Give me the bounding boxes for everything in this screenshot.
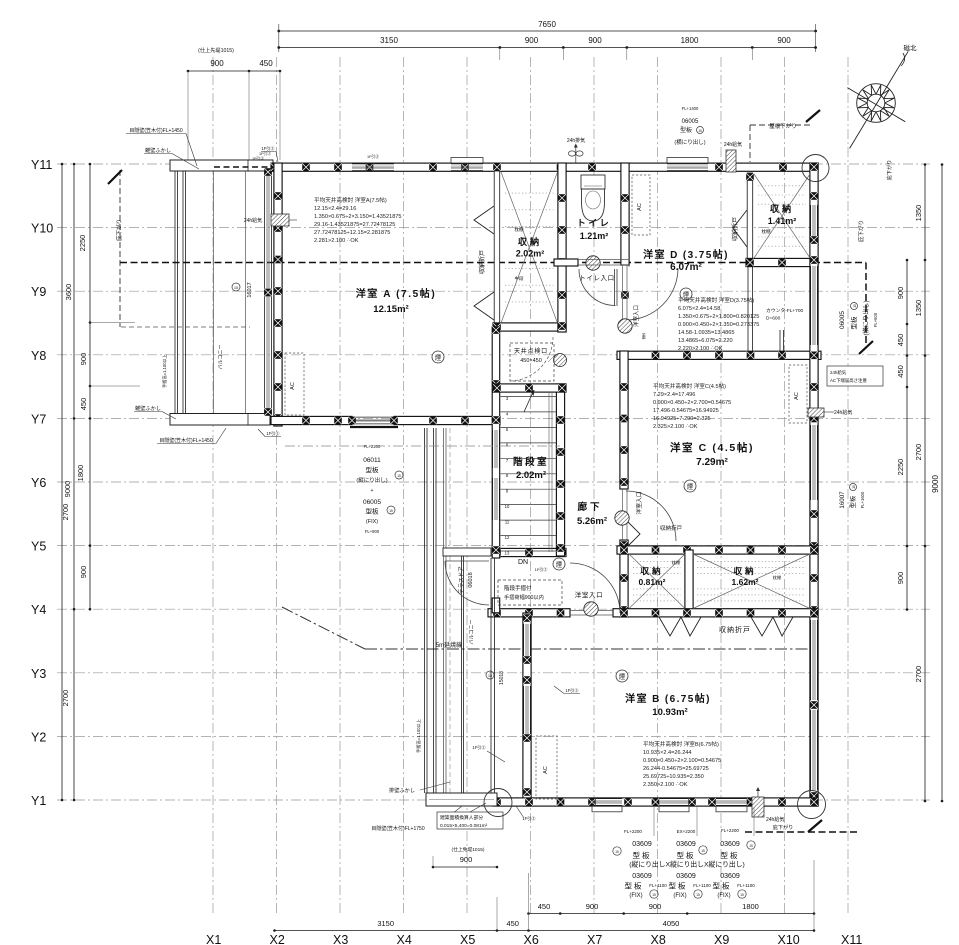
note box right side AC (827, 366, 883, 386)
svg-text:庇下がり: 庇下がり (857, 220, 865, 242)
svg-text:2.350>2.100 ∴OK: 2.350>2.100 ∴OK (643, 782, 688, 788)
Y8 wall between room D and room C (617, 351, 821, 359)
svg-text:0.015×5,400=0.081m²: 0.015×5,400=0.081m² (440, 823, 488, 829)
svg-text:7.29×2.4=17.496: 7.29×2.4=17.496 (653, 392, 695, 398)
svg-text:X9: X9 (714, 933, 729, 945)
svg-text:X3: X3 (333, 933, 348, 945)
door jamb hatch near inspection port (554, 354, 567, 367)
svg-text:X5: X5 (460, 933, 475, 945)
top exterior wall Y11 (271, 163, 818, 171)
svg-text:X1: X1 (206, 933, 221, 945)
svg-text:3150: 3150 (380, 36, 398, 45)
smoke detectors (circled) (432, 351, 444, 363)
toilet west wall (closet east) (558, 163, 566, 332)
corner circle bottom-right (798, 791, 826, 819)
dimension chain top segments 3150/900/900/1800/900 (279, 47, 816, 49)
svg-text:450: 450 (538, 902, 551, 911)
24h supply vent on left wall (271, 214, 289, 226)
svg-text:FL+1600: FL+1600 (860, 491, 865, 508)
svg-text:1.41m²: 1.41m² (768, 216, 797, 226)
svg-text:FL+1100: FL+1100 (649, 883, 667, 888)
svg-text:24h給気: 24h給気 (830, 369, 847, 376)
roof step dashed top right with label (750, 124, 812, 126)
window label right side 16007 rotated (839, 484, 865, 509)
svg-text:煙: 煙 (435, 353, 442, 362)
ceiling inspection port 450x450 (510, 343, 554, 381)
svg-text:型板: 型板 (625, 881, 644, 891)
left dimension chain 3600/2700/2700 (73, 164, 75, 800)
fold door corridor side of closet 0.81 (628, 522, 640, 546)
svg-text:1F引②: 1F引② (472, 744, 486, 751)
eaves dashed bottom right with label (745, 831, 858, 833)
closet 1.41 west rail and fold door (747, 173, 753, 266)
svg-text:2.02m²: 2.02m² (516, 249, 545, 259)
svg-text:側枠: 側枠 (641, 332, 646, 339)
svg-text:2700: 2700 (914, 444, 923, 461)
bottom chain 450/900/900/1800 (529, 913, 815, 915)
svg-text:天井点検口: 天井点検口 (514, 347, 548, 355)
svg-text:FL+1100: FL+1100 (737, 883, 755, 888)
svg-text:15: 15 (698, 129, 702, 133)
svg-text:磁北: 磁北 (904, 43, 918, 52)
svg-text:排壁ふかし: 排壁ふかし (389, 786, 415, 794)
svg-text:24h排気: 24h排気 (567, 137, 585, 144)
svg-text:型板: 型板 (849, 495, 857, 508)
svg-text:24h給気: 24h給気 (834, 409, 852, 416)
svg-text:庇下がり: 庇下がり (773, 823, 794, 831)
svg-text:バルコニー: バルコニー (218, 345, 224, 370)
svg-text:0.81m²: 0.81m² (639, 577, 666, 587)
svg-text:目隠壁(笠木付)FL+1450: 目隠壁(笠木付)FL+1450 (129, 127, 182, 134)
svg-text:5m延焼線: 5m延焼線 (436, 641, 462, 649)
closet divider wall (685, 550, 693, 613)
svg-text:(縦にり出し): (縦にり出し) (356, 476, 387, 484)
svg-text:(仕上免堤1015): (仕上免堤1015) (451, 846, 484, 853)
svg-text:450: 450 (506, 919, 519, 928)
svg-text:X8: X8 (651, 933, 666, 945)
toilet entry door with arc and jamb (576, 259, 578, 267)
svg-text:450: 450 (896, 365, 905, 378)
interior eaves dashed line FL+1400 level y=262 (120, 262, 866, 264)
right dimension chain outer 1350/1350/2700/2700 (924, 165, 926, 802)
svg-text:1.350×0.675÷2×3.150=1.43521875: 1.350×0.675÷2×3.150=1.43521875 (314, 214, 402, 220)
svg-text:枕棚: 枕棚 (515, 226, 524, 233)
svg-text:型板: 型板 (721, 850, 740, 860)
svg-text:型板: 型板 (677, 850, 696, 860)
svg-text:15: 15 (488, 674, 492, 678)
svg-text:建築面積換算人部分: 建築面積換算人部分 (440, 814, 483, 821)
svg-text:03609: 03609 (632, 873, 652, 880)
svg-text:1800: 1800 (742, 902, 759, 911)
svg-text:Y6: Y6 (31, 476, 46, 490)
svg-text:洋室 C (4.5帖): 洋室 C (4.5帖) (670, 441, 754, 454)
svg-text:9000: 9000 (931, 475, 940, 493)
balcony lower-left top bar (443, 548, 491, 556)
stair handrail line (548, 392, 550, 552)
grid lines X1-X11 (vertical dash-dot) (213, 57, 848, 916)
svg-text:(横にり出し): (横にり出し) (862, 300, 870, 335)
svg-text:12.15×2.4=29.16: 12.15×2.4=29.16 (314, 206, 356, 212)
svg-text:06005: 06005 (839, 311, 846, 329)
svg-text:1F引②: 1F引② (266, 430, 280, 437)
svg-text:900: 900 (460, 855, 473, 864)
svg-text:1350: 1350 (914, 205, 923, 222)
svg-text:29.16-1.43521875=27.72478125: 29.16-1.43521875=27.72478125 (314, 222, 395, 228)
svg-text:06018: 06018 (468, 572, 474, 587)
balcony top-left: bottom bar (170, 414, 270, 426)
svg-text:Y8: Y8 (31, 349, 46, 363)
svg-text:03609: 03609 (632, 841, 652, 848)
casement window protrusions below bottom wall (592, 806, 622, 812)
svg-text:AC: AC (290, 382, 296, 390)
stair top wall (493, 384, 566, 392)
svg-text:Y4: Y4 (31, 603, 46, 617)
svg-text:2.281>2.100 ∴OK: 2.281>2.100 ∴OK (314, 238, 359, 244)
svg-text:平均天井高検討 洋室C(4.5帖): 平均天井高検討 洋室C(4.5帖) (653, 382, 726, 390)
counter in room D (FL+700 D=600) (747, 266, 749, 351)
svg-text:1F引②: 1F引② (522, 815, 536, 822)
svg-text:庇下がり: 庇下がり (115, 219, 123, 241)
svg-text:(縦にり出しX縦にり出しX縦にり出し): (縦にり出しX縦にり出しX縦にり出し) (629, 860, 745, 869)
svg-text:10.935×2.4=26.244: 10.935×2.4=26.244 (643, 750, 692, 756)
svg-text:階段手摺付: 階段手摺付 (504, 584, 532, 592)
svg-text:型板: 型板 (633, 850, 652, 860)
svg-text:型板: 型板 (680, 126, 692, 134)
svg-text:15: 15 (749, 844, 753, 848)
Y5 wall closets top (617, 546, 818, 554)
svg-text:24h給気: 24h給気 (244, 217, 262, 224)
svg-text:(横にり出し): (横にり出し) (674, 138, 705, 146)
svg-text:D=600: D=600 (766, 316, 781, 322)
5m fire spread line (282, 607, 365, 649)
svg-text:450×450: 450×450 (520, 358, 542, 364)
eaves dash-dot line FL+2200 level (285, 445, 560, 447)
svg-text:7650: 7650 (538, 20, 556, 29)
svg-text:900: 900 (896, 287, 905, 300)
svg-text:FL+1100: FL+1100 (693, 883, 711, 888)
svg-text:2.325>2.100 ∴OK: 2.325>2.100 ∴OK (653, 424, 698, 430)
svg-text:15: 15 (234, 286, 238, 290)
svg-text:900: 900 (79, 353, 88, 366)
svg-text:Y1: Y1 (31, 794, 46, 808)
casement protrusion above top wall window (667, 158, 708, 164)
svg-text:FL+2200: FL+2200 (721, 828, 739, 833)
svg-text:16017: 16017 (247, 282, 253, 297)
svg-text:目隠壁(笠木付)FL+1750: 目隠壁(笠木付)FL+1750 (371, 825, 424, 832)
svg-text:手摺荷幅900以内: 手摺荷幅900以内 (504, 593, 544, 601)
AC unit room A (285, 353, 304, 415)
Y7 wall below room A with terrace window (271, 416, 352, 424)
svg-text:03609: 03609 (720, 841, 740, 848)
svg-text:FL+2200: FL+2200 (624, 829, 642, 834)
svg-text:03609: 03609 (676, 841, 696, 848)
balcony top-left: privacy screen top bar (170, 160, 273, 171)
svg-text:廊下: 廊下 (577, 501, 602, 513)
right dimension overall 9000 (941, 165, 943, 802)
closet 1.41 bottom wall (746, 258, 818, 266)
svg-text:AC: AC (543, 766, 549, 774)
closet 2.02 bottom wall (493, 323, 566, 331)
svg-text:2.220>2.100 ∴OK: 2.220>2.100 ∴OK (678, 346, 723, 352)
svg-text:(FIX): (FIX) (366, 519, 378, 525)
svg-text:FL+2200: FL+2200 (364, 444, 381, 449)
svg-text:6.075×2.4=14.58: 6.075×2.4=14.58 (678, 306, 720, 312)
svg-text:15: 15 (853, 304, 857, 308)
closet 1.62 storage cross hatch (693, 554, 810, 609)
svg-text:洋室入口: 洋室入口 (632, 305, 640, 327)
svg-text:06005: 06005 (363, 499, 381, 506)
svg-text:26.244-0.54675=25.69725: 26.244-0.54675=25.69725 (643, 766, 709, 772)
svg-text:900: 900 (896, 572, 905, 585)
AC unit room B (536, 736, 557, 799)
dimension chain top overall 7650 (279, 30, 816, 32)
svg-text:洋室入口: 洋室入口 (575, 590, 603, 599)
svg-text:25.69725÷10.935=2.350: 25.69725÷10.935=2.350 (643, 774, 704, 780)
svg-text:雑壁ふかし: 雑壁ふかし (135, 404, 161, 412)
svg-text:900: 900 (588, 36, 602, 45)
svg-text:5.26m²: 5.26m² (577, 516, 607, 527)
corner circle top-right (802, 155, 829, 182)
terrace door 06018 swing arc (445, 561, 489, 605)
svg-text:洋室 D (3.75帖): 洋室 D (3.75帖) (643, 248, 729, 261)
svg-text:洋室 A (7.5帖): 洋室 A (7.5帖) (356, 287, 437, 300)
balcony top-left: left handrail lines (174, 171, 176, 414)
svg-text:17.496-0.54675=16.94925: 17.496-0.54675=16.94925 (653, 408, 719, 414)
svg-text:トイレ入口: トイレ入口 (579, 274, 615, 282)
closet 1.41 storage cross hatch (754, 174, 810, 258)
bottom chain 3150/450/4050 (275, 930, 815, 932)
svg-text:7.29m²: 7.29m² (696, 457, 728, 468)
svg-text:1800: 1800 (76, 465, 85, 482)
svg-text:平均天井高検討 洋室D(3.75帖): 平均天井高検討 洋室D(3.75帖) (678, 296, 754, 304)
left dimension chain 2250/900/450/1800/900 (89, 164, 91, 609)
svg-text:06005: 06005 (682, 119, 699, 125)
grid labels X1-X11 (206, 933, 862, 945)
svg-text:DN: DN (518, 559, 528, 566)
grid labels Y1-Y11 (31, 158, 53, 808)
compass rose (magnetic north) (850, 51, 909, 148)
svg-text:2.02m²: 2.02m² (516, 470, 546, 481)
svg-text:12.15m²: 12.15m² (373, 304, 408, 315)
stair west wall with windows (492, 327, 500, 558)
svg-text:X7: X7 (587, 933, 602, 945)
svg-text:10.93m²: 10.93m² (652, 707, 687, 718)
svg-text:枕棚: 枕棚 (762, 228, 771, 235)
svg-text:900: 900 (649, 902, 662, 911)
Y4 wall with door opening (488, 609, 570, 617)
svg-text:1.21m²: 1.21m² (580, 231, 609, 241)
svg-text:手摺高=1,100以上: 手摺高=1,100以上 (415, 719, 422, 753)
room B west wall with windows (523, 613, 531, 806)
room B entry door arc and jamb (570, 563, 620, 613)
room C entry door arc and jamb (626, 491, 676, 541)
svg-text:目隠壁(笠木付)FL+1450: 目隠壁(笠木付)FL+1450 (159, 437, 212, 444)
svg-text:型板: 型板 (669, 881, 688, 891)
svg-text:900: 900 (79, 566, 88, 579)
svg-text:枕棚: 枕棚 (773, 574, 781, 581)
svg-text:AC下端届高さ注意: AC下端届高さ注意 (830, 377, 867, 384)
svg-text:1F引②: 1F引② (252, 156, 264, 161)
svg-text:1F引②: 1F引② (565, 687, 579, 694)
svg-text:14.58-1.0935=13.4865: 14.58-1.0935=13.4865 (678, 330, 734, 336)
1F sliding door in Y7 wall (352, 416, 394, 418)
svg-text:13: 13 (505, 551, 510, 556)
svg-text:2250: 2250 (78, 235, 87, 252)
stair up arrow (524, 392, 533, 412)
svg-text:収納折戸: 収納折戸 (719, 625, 751, 634)
left dimension chain overall 9000 (61, 164, 63, 800)
Y5 wall stair bottom (493, 548, 566, 556)
svg-text:1.62m²: 1.62m² (732, 577, 759, 587)
svg-text:(FIX): (FIX) (629, 893, 642, 899)
svg-text:階段室: 階段室 (513, 456, 549, 468)
balcony rail line lower-left (490, 558, 492, 798)
svg-text:FL+600: FL+600 (873, 312, 878, 327)
svg-text:X11: X11 (841, 933, 862, 945)
svg-text:煙: 煙 (619, 672, 626, 681)
svg-text:2700: 2700 (61, 504, 70, 521)
right exterior wall full height (810, 163, 818, 806)
svg-text:バルコニー: バルコニー (469, 620, 475, 645)
svg-text:X6: X6 (524, 933, 539, 945)
svg-text:1F引②: 1F引② (259, 151, 271, 156)
svg-text:900: 900 (525, 36, 539, 45)
svg-text:16.94925÷7.290=2.325: 16.94925÷7.290=2.325 (653, 416, 711, 422)
svg-text:X10: X10 (778, 933, 800, 945)
svg-text:3150: 3150 (377, 919, 394, 928)
svg-text:450: 450 (79, 398, 88, 411)
svg-text:X4: X4 (397, 933, 412, 945)
svg-text:3600: 3600 (64, 284, 73, 301)
svg-text:平均天井高検討 洋室A(7.5帖): 平均天井高検討 洋室A(7.5帖) (314, 196, 387, 204)
svg-text:AC: AC (637, 203, 643, 211)
svg-text:FL+900: FL+900 (365, 529, 380, 534)
svg-text:洋室入口: 洋室入口 (635, 491, 643, 514)
svg-text:Y2: Y2 (31, 730, 46, 744)
fold doors below closets with label (659, 617, 701, 636)
svg-text:平均天井高検討 洋室B(6.75帖): 平均天井高検討 洋室B(6.75帖) (643, 740, 719, 748)
svg-text:900: 900 (777, 36, 791, 45)
svg-text:15: 15 (615, 850, 619, 854)
svg-text:型板: 型板 (713, 881, 732, 891)
staircase treads numbered 3-13 (501, 396, 557, 398)
svg-text:1.350×0.675÷2×1.800=0.820125: 1.350×0.675÷2×1.800=0.820125 (678, 314, 759, 320)
svg-text:トイレ: トイレ (577, 218, 612, 228)
svg-text:15: 15 (701, 849, 705, 853)
svg-text:(FIX): (FIX) (717, 893, 730, 899)
svg-text:型板: 型板 (366, 507, 380, 516)
door sill lines across openings (570, 610, 613, 612)
svg-text:AC: AC (794, 392, 800, 400)
AC unit room D (632, 175, 650, 235)
svg-text:Y7: Y7 (31, 412, 46, 426)
balcony lower-left rails (424, 428, 426, 793)
svg-text:16007: 16007 (839, 491, 846, 509)
svg-text:(FIX): (FIX) (673, 893, 686, 899)
svg-text:手摺高=1,100以上: 手摺高=1,100以上 (161, 354, 168, 388)
terrace door 06018 opening (492, 598, 500, 613)
closet 0.81 storage cross hatch (629, 554, 685, 609)
svg-text:1F引③: 1F引③ (367, 154, 379, 159)
svg-text:テラスドア: テラスドア (458, 566, 465, 594)
balcony lower-left bottom privacy bar (426, 793, 497, 806)
svg-text:03609: 03609 (676, 873, 696, 880)
svg-text:12: 12 (505, 535, 510, 540)
svg-text:型板: 型板 (366, 465, 380, 474)
svg-text:Y9: Y9 (31, 285, 46, 299)
svg-text:2250: 2250 (896, 459, 905, 476)
grid lines Y1-Y11 (horizontal dash-dot) (57, 164, 930, 800)
24h vent bottom wall (752, 797, 764, 817)
toilet fixture (581, 175, 605, 189)
balcony window 16017 on wall (264, 171, 266, 414)
left chain extension ticks (90, 322, 135, 324)
bottom exterior wall Y1 (493, 798, 818, 806)
stair east wall (556, 384, 564, 556)
svg-text:煙: 煙 (687, 482, 694, 491)
corridor/room C west wall (620, 351, 628, 489)
svg-text:2700: 2700 (914, 666, 923, 683)
svg-text:24h給気: 24h給気 (724, 141, 742, 148)
stair handrail note dashed box (498, 580, 562, 605)
svg-text:9000: 9000 (63, 481, 72, 498)
svg-text:中段: 中段 (515, 275, 524, 282)
svg-text:900: 900 (586, 902, 599, 911)
svg-text:6.07m²: 6.07m² (670, 262, 702, 273)
svg-text:0.900×0.450÷2×2.700=0.54675: 0.900×0.450÷2×2.700=0.54675 (653, 400, 731, 406)
svg-text:雑壁ふかし: 雑壁ふかし (145, 146, 171, 154)
svg-text:15: 15 (740, 893, 744, 897)
svg-text:FL+1400: FL+1400 (682, 106, 699, 111)
svg-text:900: 900 (210, 59, 224, 68)
eaves dashed right side vertical (865, 263, 867, 349)
svg-text:枕棚: 枕棚 (672, 559, 680, 566)
svg-text:X2: X2 (270, 933, 285, 945)
bottom wall window labels 03609 x3 (653, 807, 655, 836)
svg-text:06011: 06011 (363, 457, 381, 464)
AC unit room C (789, 365, 807, 423)
corner circle bottom-left (484, 789, 512, 817)
window label right side 06005 rotated (839, 300, 878, 335)
svg-text:煙: 煙 (556, 560, 563, 569)
svg-text:収納: 収納 (770, 203, 794, 214)
right dimension chain inner 900/450/450/2250/900 (906, 260, 908, 610)
svg-text:(仕上先堤1015): (仕上先堤1015) (198, 46, 234, 54)
svg-text:24h給気: 24h給気 (766, 816, 784, 823)
svg-text:収納: 収納 (518, 236, 542, 247)
eaves dashed line upper-left with label (119, 170, 121, 327)
svg-text:Y3: Y3 (31, 667, 46, 681)
svg-text:11: 11 (505, 520, 510, 525)
closet 2.02 sliding rail and fold door (494, 171, 500, 327)
room D entry door arc and jamb (626, 268, 678, 320)
svg-text:1F引②: 1F引② (535, 566, 548, 572)
svg-text:Y10: Y10 (31, 222, 53, 236)
svg-text:1800: 1800 (681, 36, 699, 45)
svg-text:Y5: Y5 (31, 540, 46, 554)
svg-text:+: + (371, 488, 374, 494)
24h vent room C right (808, 408, 824, 417)
svg-text:EX+2200: EX+2200 (677, 829, 696, 834)
left exterior wall upper block (274, 163, 282, 426)
svg-text:15: 15 (696, 893, 700, 897)
svg-text:型板: 型板 (849, 316, 858, 330)
svg-text:0.900×0.450÷2×2.100=0.54675: 0.900×0.450÷2×2.100=0.54675 (643, 758, 721, 764)
svg-text:27.72478125÷12.15=2.281875: 27.72478125÷12.15=2.281875 (314, 230, 390, 236)
svg-text:カウンタ-FL+700: カウンタ-FL+700 (766, 307, 804, 314)
svg-text:洋室 B (6.75帖): 洋室 B (6.75帖) (625, 692, 711, 705)
svg-text:450: 450 (896, 334, 905, 347)
